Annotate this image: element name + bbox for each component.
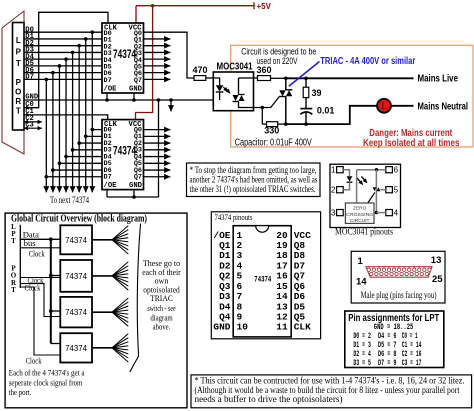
DB25 pin 2 <box>372 268 375 271</box>
svg-text:CLK: CLK <box>294 322 311 333</box>
DB25 pin 21 <box>405 272 408 275</box>
junction D6 tap for U2 <box>51 168 55 172</box>
block3 output line <box>92 311 112 313</box>
DB25 pin 16 <box>380 272 383 275</box>
wire D4 branch vertical down <box>65 59 67 190</box>
svg-text:/OE: /OE <box>104 182 118 190</box>
svg-text:Clock: Clock <box>26 356 43 366</box>
block 74374 #2 <box>60 260 92 292</box>
wire D0 branch vertical down <box>91 32 93 190</box>
svg-text:13: 13 <box>431 255 442 266</box>
block2 fan out <box>112 262 128 276</box>
svg-text:4: 4 <box>394 209 399 218</box>
svg-text:74374: 74374 <box>254 274 271 284</box>
svg-text:needs a buffer to drive the op: needs a buffer to drive the optoisolater… <box>195 394 343 404</box>
74374 pinouts box <box>211 212 320 339</box>
junction on D6 wire <box>51 71 55 75</box>
svg-text:+5V: +5V <box>257 2 272 11</box>
U3 internal triac <box>238 78 240 95</box>
MOC pinout pin4 wire <box>376 212 385 214</box>
svg-text:MOC3041 pinouts: MOC3041 pinouts <box>335 226 393 236</box>
arrow U1 Q2 output <box>144 45 171 47</box>
arrow U2 Q2 output <box>144 142 171 144</box>
svg-text:39: 39 <box>312 88 322 98</box>
DB25 pin 3 <box>377 268 380 271</box>
MOC pinout pin6 wire <box>357 169 386 171</box>
junction GND at U1 GND <box>132 98 136 102</box>
block 74374 #4 <box>60 333 92 362</box>
svg-text:D1 = 3: D1 = 3 <box>353 341 371 350</box>
svg-text:CROSSING: CROSSING <box>346 212 373 218</box>
junction gate to R3 <box>261 106 265 110</box>
svg-text:Mains Live: Mains Live <box>418 73 459 85</box>
svg-text:* To stop the diagram from get: * To stop the diagram from getting too l… <box>190 165 317 175</box>
block1 output line <box>92 239 112 241</box>
svg-text:the port.: the port. <box>9 387 32 397</box>
DB25 pin 6 <box>392 268 395 271</box>
wire GND down to U2 /OE+GND <box>158 100 160 197</box>
svg-text:D6 = 8: D6 = 8 <box>378 350 397 359</box>
DB25 pin 18 <box>390 272 393 275</box>
wire R4 to C1 cap <box>305 98 307 109</box>
block2 output line <box>92 275 112 277</box>
svg-text:D7: D7 <box>104 77 112 85</box>
svg-text:the other 31 (!) optoisolated: the other 31 (!) optoisolated TRIAC swit… <box>190 184 316 194</box>
wire U2 /OE pin stub <box>106 189 108 197</box>
MOC pinout LED <box>347 176 353 181</box>
svg-text:L: L <box>381 101 387 111</box>
wire clock4 stepped <box>20 287 60 355</box>
junction +5V for U2 <box>151 4 154 7</box>
U3 light arrow 2 <box>226 89 230 94</box>
wire C1 to bottom rail <box>305 113 307 124</box>
wire D1 branch vertical down <box>85 39 87 191</box>
latch U2 74374 body <box>102 120 144 190</box>
MOC pinout pin 2 <box>337 187 344 193</box>
lamp L1 <box>377 99 391 113</box>
wire D5 branch vertical down <box>58 66 60 191</box>
svg-text:25: 25 <box>432 274 443 285</box>
svg-text:T: T <box>11 286 16 294</box>
junction D7 tap for U2 <box>45 175 49 179</box>
svg-text:D0 = 2: D0 = 2 <box>353 332 371 341</box>
junction D2 tap for U2 <box>77 141 81 145</box>
arrow U1 Q3 output <box>144 51 171 53</box>
svg-text:C0 = 1: C0 = 1 <box>402 332 418 341</box>
arrowhead C1 at port <box>30 114 31 116</box>
wire D5 tap to U2 pin D5 <box>59 162 102 164</box>
arrow U1 Q4 output <box>144 58 171 60</box>
svg-text:D5 = 7: D5 = 7 <box>378 341 397 350</box>
svg-text:GND: GND <box>129 86 143 94</box>
arrow U1 Q7 output <box>144 78 171 80</box>
junction on D4 wire <box>64 57 68 61</box>
MOC3041 pinouts box <box>330 164 401 227</box>
svg-text:P: P <box>16 78 22 87</box>
resistor R1 470 <box>194 76 206 81</box>
wire C3 stub with arrow <box>24 127 42 129</box>
arrow D3 to next 74374 <box>72 191 74 193</box>
MOC pinout zero crossing circuit <box>345 203 374 223</box>
svg-text:Clock: Clock <box>25 283 42 293</box>
svg-text:74374 pinouts: 74374 pinouts <box>215 212 253 222</box>
DB25 pin 10 <box>413 268 416 271</box>
svg-text:Q7: Q7 <box>134 77 142 85</box>
triac T1 gate wire <box>254 97 280 108</box>
junction on D1 wire <box>84 37 88 41</box>
DB25 pin 24 <box>420 272 423 275</box>
optocoupler U3 MOC3041 body <box>213 72 253 111</box>
svg-text:D7: D7 <box>104 174 112 182</box>
wire lamp to Mains Neutral <box>391 105 414 107</box>
wire D6 tap to U2 pin D6 <box>53 169 102 171</box>
svg-text:74374: 74374 <box>113 144 136 158</box>
arrow D7 to next 74374 <box>45 191 47 193</box>
arrow U1 Q6 output <box>144 72 171 74</box>
svg-text:1: 1 <box>358 256 364 267</box>
junction data bus <box>49 237 53 241</box>
DB25 pin 22 <box>410 272 413 275</box>
svg-text:Capacitor: 0.01uF 400V: Capacitor: 0.01uF 400V <box>235 138 312 149</box>
junction GND continuation <box>169 98 173 102</box>
wire data bus to block1 <box>20 238 60 240</box>
svg-text:Global Circuit Overview (block: Global Circuit Overview (block diagram) <box>11 214 147 225</box>
U3 internal triac bottom wire to pin4 <box>239 102 254 108</box>
DB25 pin 12 <box>423 268 426 271</box>
svg-text:10: 10 <box>237 322 249 333</box>
svg-text:D3 = 5: D3 = 5 <box>353 359 371 368</box>
wire +5V rail <box>136 5 254 7</box>
arrow D1 to next 74374 <box>85 191 87 193</box>
svg-text:GND: GND <box>213 322 230 333</box>
wire U1 GND pin stub <box>133 93 135 100</box>
svg-text:330: 330 <box>264 126 279 136</box>
junction triac MT2 <box>284 77 288 81</box>
block4 fan out <box>112 334 128 348</box>
svg-text:seperate clock signal from: seperate clock signal from <box>9 377 83 387</box>
wire D1 from port to U1 pin D1 <box>24 38 102 40</box>
capacitor C1 0.01uF <box>300 108 312 110</box>
resistor R4 39 <box>305 78 307 87</box>
svg-text:74374: 74374 <box>65 344 87 353</box>
wire U2 /OE-GND bottom bus <box>107 196 159 198</box>
wire D7 from port to U1 pin D7 <box>24 78 102 80</box>
wire R2 to mains live <box>271 77 286 79</box>
svg-text:CIRCUIT: CIRCUIT <box>350 218 370 224</box>
DB25 pin 5 <box>387 268 390 271</box>
wire D7 tap to U2 pin D7 <box>46 176 102 178</box>
resistor R3 330 <box>262 123 266 125</box>
connector J1 LPT port D-shell outline <box>2 11 24 154</box>
svg-text:D7: D7 <box>25 74 34 82</box>
svg-text:6: 6 <box>394 166 399 175</box>
wire D5 from port to U1 pin D5 <box>24 65 102 67</box>
svg-text:Clock: Clock <box>29 249 46 259</box>
wire data bus vertical <box>50 239 52 343</box>
arrow U2 Q3 output <box>144 149 171 151</box>
arrow U1 Q5 output <box>144 65 171 67</box>
junction on D2 wire <box>77 44 81 48</box>
svg-text:74374: 74374 <box>65 272 87 281</box>
DB25 pin 20 <box>400 272 403 275</box>
svg-text:D4 = 6: D4 = 6 <box>378 332 397 341</box>
DB25 pin 17 <box>385 272 388 275</box>
wire clock1 <box>20 247 60 249</box>
MOC pinout junction pin4 <box>375 211 378 214</box>
wire D7 branch vertical down <box>45 79 47 190</box>
wire U2 GND pin stub <box>133 189 135 197</box>
MOC pinout vertical to ZC <box>356 170 358 203</box>
connector J1 LPT port body <box>13 23 25 131</box>
wire Mains Live <box>286 77 414 79</box>
arrow U1 Q1 output <box>144 38 171 40</box>
svg-text:TRIAC - 4A 400V or similar: TRIAC - 4A 400V or similar <box>320 56 415 67</box>
svg-text:To next 74374: To next 74374 <box>50 195 89 205</box>
junction on D3 wire <box>71 51 75 55</box>
arrow U2 Q0 output <box>144 129 171 131</box>
svg-text:T: T <box>11 237 16 245</box>
svg-text:above.: above. <box>153 321 171 331</box>
arrow D2 to next 74374 <box>78 191 80 193</box>
svg-text:another 2 74374's had been omi: another 2 74374's had been omitted, as w… <box>190 174 318 184</box>
svg-text:14: 14 <box>356 276 367 287</box>
junction D3 tap for U2 <box>71 148 75 152</box>
svg-text:74374: 74374 <box>65 236 87 245</box>
svg-text:P: P <box>16 48 22 57</box>
svg-text:Q7: Q7 <box>134 174 142 182</box>
74374 pinout IC body <box>233 226 291 337</box>
svg-text:ZERO: ZERO <box>353 206 367 212</box>
DB25 pin 4 <box>382 268 385 271</box>
svg-text:switch - see: switch - see <box>147 303 175 313</box>
wire clock3 stepped <box>20 284 60 317</box>
resistor R2 360 <box>254 77 258 79</box>
arrow U2 Q7 output <box>144 176 171 178</box>
wire gate down to R3 <box>261 108 263 125</box>
MOC pinout triac symbol <box>373 187 377 191</box>
wire bottom rail to neutral <box>286 106 377 124</box>
triac T1 <box>285 78 287 90</box>
junction C1 bottom <box>304 122 308 126</box>
svg-text:1: 1 <box>331 166 336 175</box>
arrow D5 to next 74374 <box>58 191 60 193</box>
junction D0 tap for U2 <box>91 128 95 132</box>
U3 LED diode <box>216 85 224 91</box>
svg-text:D7 = 9: D7 = 9 <box>378 359 397 368</box>
wire D0 tap to U2 pin D0 <box>92 129 102 131</box>
wire D3 from port to U1 pin D3 <box>24 51 102 53</box>
svg-text:R: R <box>15 97 21 106</box>
svg-text:11: 11 <box>276 322 288 333</box>
wire C2 stub with arrow <box>24 121 42 123</box>
arrow D0 to next 74374 <box>91 191 93 193</box>
wire D4 tap to U2 pin D4 <box>66 156 102 158</box>
svg-text:O: O <box>15 88 21 97</box>
MOC pinout light arrow 1 <box>357 178 363 184</box>
wire D4 from port to U1 pin D4 <box>24 58 102 60</box>
arrow D4 to next 74374 <box>65 191 67 193</box>
global circuit overview box <box>5 213 187 408</box>
MOC pinout triac rail <box>375 170 377 213</box>
svg-text:74374: 74374 <box>113 47 136 61</box>
MOC pinout pin 6 <box>386 167 393 173</box>
junction data to block2 <box>49 274 53 278</box>
junction GND at U1 /OE <box>105 98 109 102</box>
DB25 pin 9 <box>408 268 411 271</box>
block 74374 #3 <box>60 297 92 328</box>
male plug box <box>351 251 445 303</box>
DB25 pin 13 <box>428 268 431 271</box>
DB25 pin 15 <box>375 272 378 275</box>
junction on D7 wire <box>45 78 49 82</box>
arrow D6 to next 74374 <box>52 191 54 193</box>
DB25 pin 25 <box>425 272 428 275</box>
junction triac MT1 / R3 <box>284 122 288 126</box>
DB25 pin 7 <box>397 268 400 271</box>
junction data to block3 <box>49 309 53 313</box>
svg-text:Male plug (pins facing you): Male plug (pins facing you) <box>361 290 437 301</box>
junction D4 tap for U2 <box>64 155 68 159</box>
wire D6 branch vertical down <box>52 73 54 191</box>
svg-text:C1 = 14: C1 = 14 <box>402 341 422 350</box>
wire D6 from port to U1 pin D6 <box>24 72 102 74</box>
MOC pinout light arrow 2 <box>361 176 367 182</box>
arrow GND to next 74374 <box>170 100 172 111</box>
svg-text:C2 = 16: C2 = 16 <box>402 350 422 359</box>
block3 fan out <box>112 298 128 312</box>
wire D3 tap to U2 pin D3 <box>73 149 102 151</box>
svg-text:GND = 18..25: GND = 18..25 <box>374 323 414 332</box>
U3 light arrow 1 <box>223 87 227 92</box>
latch U1 74374 body <box>102 23 144 93</box>
wire clock2 <box>20 277 60 279</box>
MOC pinout LED wiring <box>343 170 349 176</box>
wire C1 clock from port to U2 CLK <box>24 115 108 120</box>
wire D2 from port to U1 pin D2 <box>24 45 102 47</box>
fan group bracket <box>130 224 141 373</box>
wire R1 to optocoupler pin1 <box>206 77 214 79</box>
MOC pinout pin 3 <box>337 210 344 216</box>
svg-text:2: 2 <box>331 186 336 195</box>
svg-text:Keep Isolated at all times: Keep Isolated at all times <box>363 137 460 149</box>
DB25 pin 11 <box>418 268 421 271</box>
DB25 pin 8 <box>402 268 405 271</box>
svg-text:GND: GND <box>129 182 143 190</box>
74374 pinout IC notch <box>256 226 269 233</box>
arrow U2 Q4 output <box>144 156 171 158</box>
svg-text:/OE: /OE <box>104 86 118 94</box>
wire D2 branch vertical down <box>78 46 80 191</box>
svg-text:D2 = 4: D2 = 4 <box>353 350 371 359</box>
note box omitted chips <box>187 163 321 197</box>
junction U2 GND <box>132 195 136 199</box>
junction GND to U2 <box>157 98 161 102</box>
DB25 pin 14 <box>370 272 373 275</box>
arrow U2 Q1 output <box>144 135 171 137</box>
MOC pinout pin 1 <box>337 167 344 173</box>
MOC pinout junction pin6 <box>375 168 378 171</box>
block4 output line <box>92 347 112 349</box>
junction on D5 wire <box>58 64 62 68</box>
junction D5 tap for U2 <box>58 162 62 166</box>
svg-text:470: 470 <box>192 65 207 75</box>
DB25 pin 19 <box>395 272 398 275</box>
junction D1 tap for U2 <box>84 135 88 139</box>
junction snubber top <box>304 77 308 81</box>
svg-text:3: 3 <box>331 209 336 218</box>
MOC pinout gate line <box>368 193 375 204</box>
wire +5V to U1 VCC <box>135 6 137 23</box>
block LPT port spine <box>19 225 21 288</box>
svg-text:360: 360 <box>256 65 271 75</box>
wire U1 Q0 to R1 <box>144 32 195 78</box>
svg-text:Mains Neutral: Mains Neutral <box>418 100 469 112</box>
DB25 pin 23 <box>415 272 418 275</box>
pin assignments box <box>345 311 444 368</box>
MOC pinout pin 4 <box>386 210 393 216</box>
+5V end tick <box>253 2 255 9</box>
arrow U2 Q5 output <box>144 162 171 164</box>
svg-text:Each of the 4 74374's get a: Each of the 4 74374's get a <box>9 368 85 378</box>
U3 LED anode wire <box>213 78 219 85</box>
junction on D0 wire <box>91 30 95 34</box>
wire data to block4 <box>51 343 61 345</box>
arrowhead C0 at port <box>30 107 31 109</box>
U3 LED cathode wire to GND bus <box>219 92 221 100</box>
wire C0 clock from port up and over to U1 CLK <box>24 12 108 107</box>
MOC pinout pin 5 <box>386 187 393 193</box>
svg-text:5: 5 <box>394 186 399 195</box>
wire D1 tap to U2 pin D1 <box>86 135 102 137</box>
svg-text:L: L <box>16 36 21 45</box>
DB25 connector outline <box>366 267 432 278</box>
wire +5V to U2 VCC <box>136 6 153 120</box>
svg-text:T: T <box>16 107 21 116</box>
svg-text:0.01: 0.01 <box>317 105 335 115</box>
orange mains warning box <box>231 45 473 147</box>
block1 fan out <box>112 226 128 240</box>
wire GND bus from port to optocoupler <box>24 99 220 101</box>
wire U1 /OE pin stub <box>106 93 108 100</box>
DB25 pin 1 <box>367 268 370 271</box>
svg-text:TRIAC: TRIAC <box>150 293 173 303</box>
wire D0 from port to U1 pin D0 <box>24 31 102 33</box>
wire D3 branch vertical down <box>72 52 74 190</box>
MOC pinout pin5 wire <box>380 189 386 191</box>
label TRIAC callout <box>289 62 320 87</box>
arrow U2 Q6 output <box>144 169 171 171</box>
svg-text:74374: 74374 <box>65 308 87 317</box>
svg-text:T: T <box>16 59 21 68</box>
svg-text:MOC3041: MOC3041 <box>217 61 253 73</box>
note box construction <box>191 375 472 408</box>
svg-text:C3 = 17: C3 = 17 <box>402 359 422 368</box>
block 74374 #1 <box>60 225 92 254</box>
wire D2 tap to U2 pin D2 <box>79 142 102 144</box>
